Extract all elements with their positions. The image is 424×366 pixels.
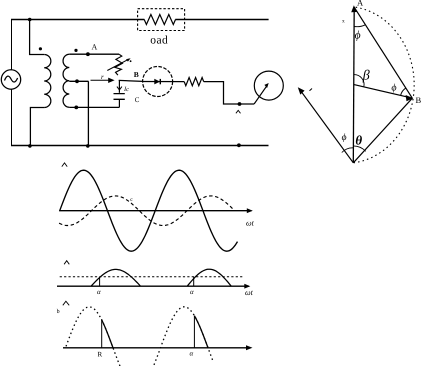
tick mark near E (310, 89, 313, 91)
wire capacitor bottom lead (118, 99, 120, 107)
wire secondary bottom lead (69, 106, 119, 108)
phasor vertical AO (352, 7, 355, 163)
wire left vertical top (11, 20, 13, 70)
plot2 caret (64, 261, 69, 265)
wire left vertical bottom (11, 89, 13, 145)
wire through diode (143, 81, 185, 83)
svg-text:α: α (190, 288, 194, 296)
polarity dot primary (39, 47, 42, 50)
svg-text:α: α (97, 288, 101, 296)
junction dot bottom rail right (237, 143, 241, 147)
wire bottom rail (11, 145, 269, 147)
plot1 large sine e (60, 170, 238, 251)
arc theta at O (353, 146, 365, 151)
current arrow Ic (117, 87, 122, 90)
node A junction dot (86, 52, 90, 56)
phasor dotted arc (354, 7, 414, 163)
wire center tap lead (69, 80, 88, 82)
svg-text:B: B (134, 70, 139, 79)
phasor line O-B (353, 98, 412, 163)
svg-text:α: α (190, 350, 194, 358)
rheostat R zigzag (115, 54, 123, 75)
diode V1 envelope (143, 67, 173, 97)
plot1 axis arrowhead (247, 208, 253, 213)
junction secondary bottom dot (74, 106, 78, 110)
svg-text:A: A (357, 0, 364, 8)
svg-text:ωt: ωt (246, 219, 255, 228)
meter M1 needle arrowhead (264, 83, 268, 88)
plot3 solid segment 2 (194, 316, 208, 348)
svg-text:ωt: ωt (245, 288, 254, 297)
svg-text:θ: θ (355, 133, 362, 148)
svg-text:x: x (342, 19, 345, 25)
svg-text:oad: oad (150, 35, 168, 47)
meter M1 body (254, 71, 283, 100)
arc phi at A (354, 25, 365, 27)
plot2 pulse 1 (91, 269, 141, 286)
wire top rail (11, 19, 144, 21)
plot2 axis arrowhead (244, 284, 250, 289)
wire primary bottom lead (30, 108, 44, 146)
junction primary-bottom rail (28, 144, 32, 148)
resistor R2 zigzag (184, 78, 204, 86)
svg-text:C: C (135, 96, 140, 104)
plot3 axis arrowhead (246, 345, 253, 350)
junction top-left (28, 18, 32, 22)
rheostat R wiper arrow (107, 58, 131, 70)
svg-text:ϕ: ϕ (342, 133, 347, 143)
svg-text:A: A (92, 42, 98, 51)
wire diagonal to meter (254, 85, 267, 104)
plot1 caret (62, 163, 67, 167)
phasor line O-E (300, 89, 354, 163)
load dashed box (138, 9, 185, 31)
junction dot x (238, 102, 242, 106)
svg-text:r: r (101, 73, 104, 81)
plot2 firing line 1 (99, 277, 101, 287)
plot3 solid segment 1 (102, 320, 113, 348)
current arrow r (91, 78, 115, 83)
svg-text:c: c (130, 197, 133, 203)
diode V1 cathode bar (159, 79, 161, 84)
plot3 axis (63, 347, 250, 349)
svg-text:ϕ: ϕ (391, 82, 396, 93)
wire node B (119, 80, 143, 81)
wire center tap down (87, 81, 89, 145)
diode V1 triangle (154, 79, 160, 85)
transformer T1 primary winding (44, 55, 51, 108)
svg-text:B: B (416, 95, 422, 105)
wire capacitor top lead (118, 80, 120, 92)
ac source G1 (1, 70, 20, 89)
wire secondary top lead to node A (69, 53, 119, 55)
plot3 caret (63, 301, 69, 305)
transformer T1 secondary winding (63, 54, 69, 107)
phasor arrowhead at E (298, 87, 305, 94)
plot2 dashed threshold line (60, 276, 243, 278)
label caret x (236, 110, 241, 113)
wire primary top lead (30, 20, 44, 55)
wire resistor to corner (204, 82, 254, 104)
plot2 pulse 2 (187, 269, 231, 286)
svg-text:Ic: Ic (123, 86, 129, 93)
junction tap-bottom rail (86, 144, 90, 148)
polarity dot secondary (74, 49, 77, 52)
arc phi at B (401, 88, 406, 95)
plot3 firing line 1 (101, 319, 103, 348)
plot3 dotted sine (66, 307, 214, 366)
svg-text:R: R (98, 351, 103, 359)
capacitor C plates (114, 94, 125, 100)
phasor line A-B (354, 7, 412, 98)
svg-text:β: β (362, 69, 370, 84)
plot1 small dashed sine (59, 196, 233, 226)
load resistor zigzag (144, 15, 175, 25)
arc phi at O (342, 148, 354, 153)
arc beta (354, 75, 364, 87)
phasor arrowhead at A (351, 5, 357, 12)
phasor line center-B (354, 85, 409, 98)
plot1 axis (59, 210, 251, 212)
svg-text:b: b (57, 308, 60, 315)
plot2 firing line 2 (193, 277, 195, 287)
phasor arrowhead at B (406, 95, 414, 101)
plot3 firing line 2 (193, 316, 195, 348)
svg-text:ϕ: ϕ (355, 30, 361, 42)
junction center tap dot (75, 79, 79, 83)
plot2 axis (57, 285, 249, 287)
